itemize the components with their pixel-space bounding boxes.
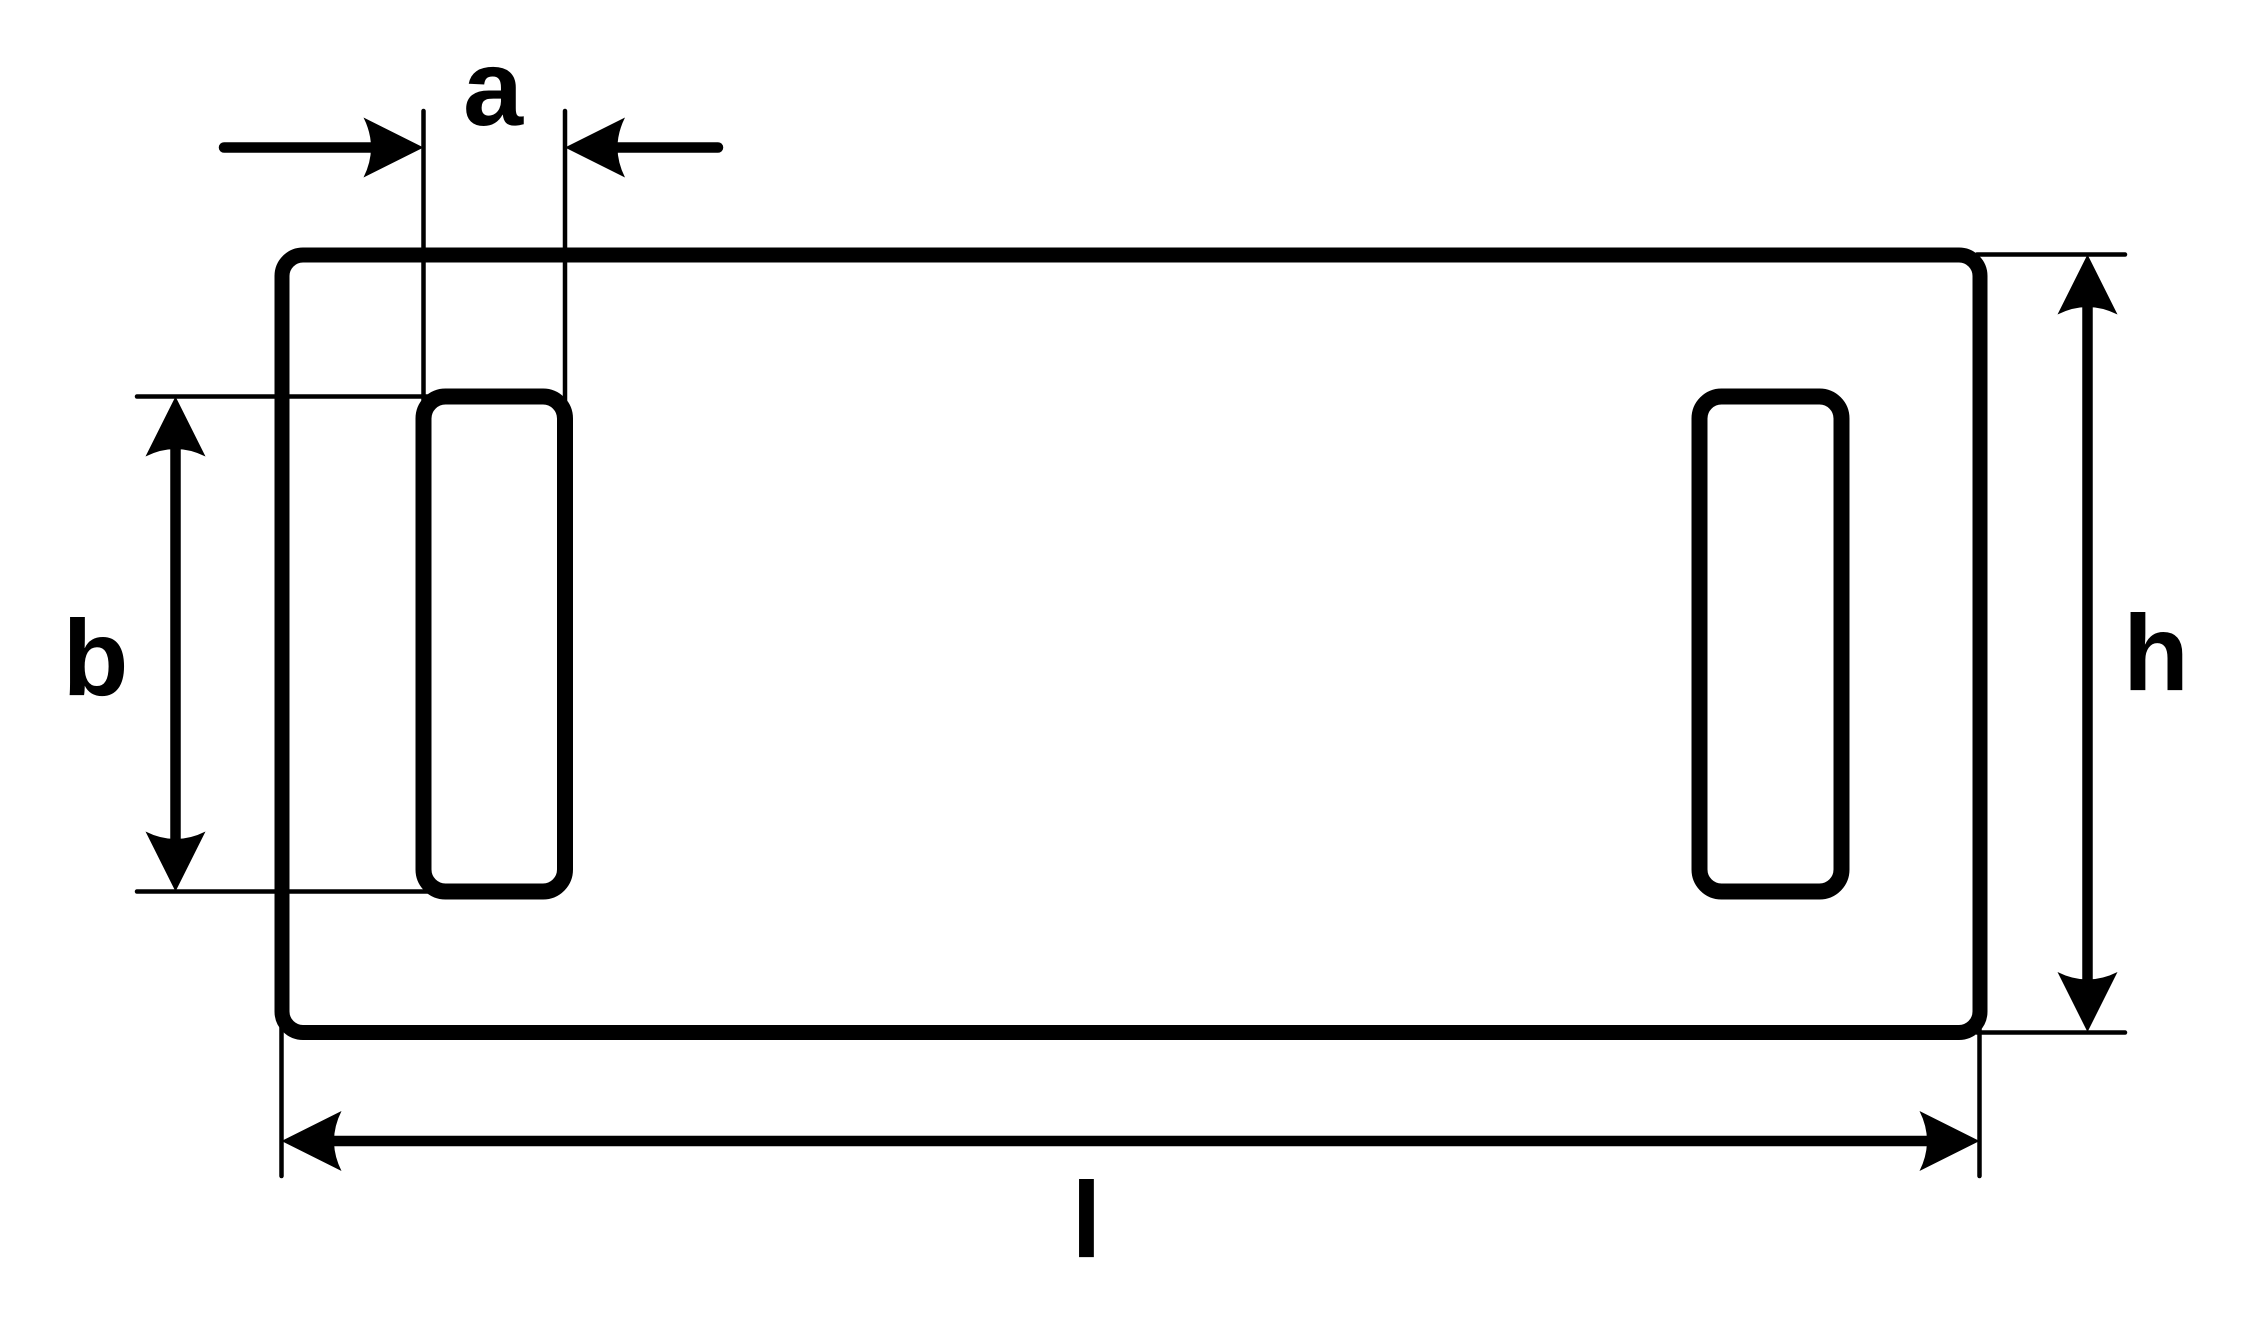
svg-text:h: h xyxy=(2123,592,2189,713)
svg-text:l: l xyxy=(1071,1159,1101,1280)
svg-text:b: b xyxy=(63,597,129,718)
svg-text:a: a xyxy=(463,27,524,148)
